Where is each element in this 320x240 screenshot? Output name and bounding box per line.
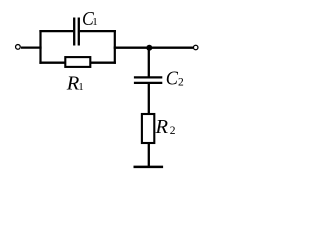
- wire: top branch left segment: [39, 30, 73, 32]
- label R2: [155, 116, 176, 138]
- output terminal (right): [193, 45, 198, 50]
- wire: main output wire to right terminal: [114, 47, 194, 49]
- node junction dot: [146, 45, 152, 51]
- wire: right vertical side of parallel network: [114, 30, 116, 64]
- wire: junction down to C2: [148, 47, 150, 78]
- label C1: [82, 9, 98, 30]
- resistor R1: [65, 57, 90, 67]
- wire: bottom branch right segment: [91, 62, 116, 64]
- ground: [134, 166, 164, 168]
- wire: bottom branch left segment: [39, 62, 65, 64]
- svg-text:1: 1: [78, 81, 84, 93]
- svg-text:R: R: [155, 116, 169, 138]
- wire: left vertical side of parallel network: [39, 30, 41, 64]
- svg-text:2: 2: [170, 125, 176, 137]
- wire: R2 down to ground: [148, 143, 150, 168]
- label R1: [66, 72, 84, 94]
- capacitor C1: [74, 18, 79, 46]
- svg-text:2: 2: [178, 76, 184, 88]
- input terminal (left): [16, 45, 21, 50]
- svg-text:C: C: [166, 67, 178, 89]
- capacitor C2: [134, 77, 162, 83]
- label C2: [166, 67, 184, 89]
- svg-text:1: 1: [92, 16, 98, 28]
- wire: top branch right segment: [80, 30, 116, 32]
- wire: left terminal to parallel network: [21, 46, 42, 48]
- resistor R2: [142, 114, 154, 143]
- wire: C2 down to R2: [148, 83, 150, 115]
